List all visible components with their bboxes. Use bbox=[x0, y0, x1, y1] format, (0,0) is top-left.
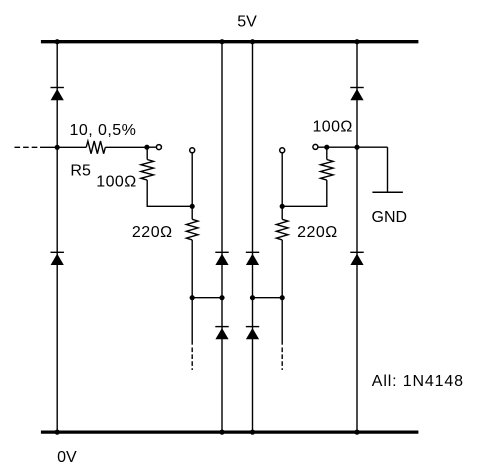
wire terminal down to junction right bbox=[281, 153, 283, 206]
wire 100 Ohm right down and across bbox=[282, 180, 327, 206]
diode D7 lower row mid-left wire (1N4148) bbox=[215, 327, 228, 340]
node top rail right bbox=[354, 39, 359, 44]
node junction right pair a bbox=[280, 295, 285, 300]
node junction left 220 Ohm top bbox=[190, 204, 195, 209]
0V power rail bbox=[41, 430, 419, 433]
svg-text:R5: R5 bbox=[70, 162, 91, 179]
diode D3 mid row left wire (1N4148) bbox=[51, 252, 64, 265]
wire cross connect left pair bbox=[192, 297, 222, 299]
node left wire input junction bbox=[55, 145, 60, 150]
wire mid-right vertical bbox=[252, 42, 254, 432]
svg-text:All: 1N4148: All: 1N4148 bbox=[372, 373, 464, 390]
node junction right 100 Ohm top bbox=[324, 145, 329, 150]
node top rail mid-right bbox=[250, 39, 255, 44]
node bottom rail left bbox=[55, 430, 60, 435]
wire junction down to 100 Ohm bbox=[146, 147, 148, 159]
resistor 100 Ohm left bbox=[141, 160, 154, 181]
resistor 100 Ohm right bbox=[321, 160, 334, 181]
diode D1 top of left wire (1N4148) bbox=[51, 88, 64, 101]
terminal open circle right outer bbox=[280, 148, 285, 153]
node junction right wire at row bbox=[354, 145, 359, 150]
svg-text:10, 0,5%: 10, 0,5% bbox=[70, 122, 137, 139]
resistor R5 10 Ohm 0,5% bbox=[86, 141, 105, 154]
wire dashed continuation right lower bbox=[281, 348, 283, 371]
wire mid-left vertical bbox=[221, 42, 223, 432]
node bottom rail mid-left bbox=[219, 430, 224, 435]
resistor 220 Ohm left bbox=[186, 219, 198, 240]
wire junction down to 100 Ohm right bbox=[326, 147, 328, 159]
svg-text:GND: GND bbox=[372, 209, 408, 226]
node top rail left bbox=[55, 39, 60, 44]
resistor 220 Ohm right bbox=[276, 219, 288, 240]
wire right horizontal bbox=[318, 146, 387, 148]
wire dashed continuation left input bbox=[15, 146, 39, 148]
wire cross connect right pair bbox=[253, 297, 283, 299]
5V power rail bbox=[41, 40, 419, 43]
diode D2 top of right wire (1N4148) bbox=[350, 88, 363, 101]
terminal open circle right inner bbox=[313, 144, 318, 149]
node junction left pair a bbox=[190, 295, 195, 300]
svg-text:100Ω: 100Ω bbox=[313, 119, 353, 136]
svg-text:100Ω: 100Ω bbox=[96, 173, 136, 190]
node junction right 220 Ohm top bbox=[280, 204, 285, 209]
wire terminal down to junction bbox=[191, 153, 193, 206]
node junction left pair b bbox=[219, 295, 224, 300]
diode D6 mid row right wire (1N4148) bbox=[350, 252, 363, 265]
diode D5 mid row mid-right wire (1N4148) bbox=[246, 252, 259, 265]
terminal open circle left inner bbox=[156, 145, 161, 150]
node junction right pair b bbox=[250, 295, 255, 300]
wire left vertical bbox=[56, 42, 58, 432]
wire dashed continuation left lower bbox=[191, 348, 193, 371]
node junction left 100 Ohm top bbox=[144, 145, 149, 150]
node bottom rail right bbox=[354, 430, 359, 435]
node bottom rail mid-right bbox=[250, 430, 255, 435]
node top rail mid-left bbox=[219, 39, 224, 44]
svg-text:220Ω: 220Ω bbox=[297, 224, 338, 241]
wire R5 to junction bbox=[105, 146, 147, 148]
wire junction to 220 Ohm right bbox=[281, 206, 283, 219]
svg-text:5V: 5V bbox=[237, 14, 257, 31]
wire GND hook down bbox=[387, 147, 389, 191]
ground symbol bbox=[372, 191, 403, 193]
wire left input horizontal bbox=[40, 146, 86, 148]
svg-text:220Ω: 220Ω bbox=[132, 224, 173, 241]
wire stub to open terminal bbox=[147, 146, 156, 148]
terminal open circle left outer bbox=[190, 148, 195, 153]
svg-text:0V: 0V bbox=[57, 449, 77, 466]
wire right vertical bbox=[356, 42, 358, 432]
wire 220 Ohm down to cross junction bbox=[191, 240, 193, 345]
diode D4 mid row mid-left wire (1N4148) bbox=[215, 252, 228, 265]
diode D8 lower row mid-right wire (1N4148) bbox=[246, 327, 259, 340]
wire 100 Ohm down and across to 220 Ohm junction bbox=[147, 180, 192, 206]
wire 220 Ohm right down to cross junction bbox=[281, 240, 283, 345]
wire junction to 220 Ohm bbox=[191, 206, 193, 219]
